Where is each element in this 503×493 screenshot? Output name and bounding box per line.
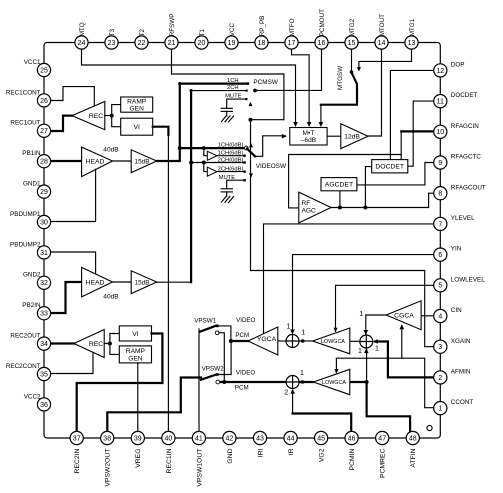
svg-text:T2: T2 — [139, 28, 146, 36]
svg-text:46: 46 — [348, 435, 356, 442]
svg-text:1CH: 1CH — [227, 78, 239, 84]
svg-text:1: 1 — [359, 311, 363, 318]
svg-text:AGC: AGC — [302, 208, 317, 215]
svg-text:1: 1 — [375, 345, 379, 352]
svg-text:40dB: 40dB — [103, 293, 119, 300]
svg-text:PBDUMP1: PBDUMP1 — [10, 211, 41, 218]
svg-text:VPSW1OUT: VPSW1OUT — [196, 449, 203, 487]
svg-text:13: 13 — [408, 40, 416, 47]
svg-text:M•T: M•T — [303, 130, 315, 137]
svg-text:REC2OUT: REC2OUT — [10, 333, 40, 340]
svg-text:MTG1: MTG1 — [409, 18, 416, 36]
svg-text:DOCDET: DOCDET — [451, 92, 478, 99]
svg-text:PCM: PCM — [235, 332, 249, 339]
svg-text:VG2: VG2 — [319, 448, 326, 462]
svg-text:19: 19 — [228, 40, 236, 47]
svg-text:42: 42 — [226, 435, 234, 442]
svg-text:REC1OUT: REC1OUT — [10, 120, 40, 127]
svg-text:3: 3 — [438, 344, 442, 351]
svg-text:44: 44 — [287, 435, 295, 442]
svg-text:2: 2 — [284, 390, 288, 397]
svg-text:T3: T3 — [109, 28, 116, 36]
svg-text:PCMREC: PCMREC — [380, 448, 387, 478]
svg-text:GND1: GND1 — [23, 181, 41, 188]
svg-text:14: 14 — [378, 40, 386, 47]
svg-text:REC1CONT: REC1CONT — [6, 89, 41, 96]
svg-text:1: 1 — [286, 324, 290, 331]
svg-text:MUTE: MUTE — [225, 94, 242, 100]
svg-text:MTQ: MTQ — [79, 22, 86, 36]
svg-text:34: 34 — [40, 341, 48, 348]
svg-text:–6dB: –6dB — [301, 137, 317, 144]
svg-text:47: 47 — [378, 435, 386, 442]
svg-text:T1: T1 — [199, 28, 206, 36]
svg-text:40dB: 40dB — [103, 146, 119, 153]
svg-text:11: 11 — [437, 99, 444, 106]
svg-text:1: 1 — [438, 406, 442, 413]
svg-text:38: 38 — [103, 435, 111, 442]
svg-text:27: 27 — [40, 128, 48, 135]
svg-text:PCMIN: PCMIN — [349, 448, 356, 470]
svg-text:48: 48 — [409, 435, 417, 442]
svg-text:30: 30 — [40, 219, 48, 226]
svg-text:33: 33 — [40, 311, 48, 318]
svg-text:41: 41 — [195, 435, 203, 442]
svg-text:35: 35 — [40, 371, 48, 378]
svg-text:RP_PB: RP_PB — [259, 16, 266, 37]
svg-text:20: 20 — [198, 40, 206, 47]
svg-text:2CH(6dB): 2CH(6dB) — [218, 166, 244, 172]
svg-text:LOWGCA: LOWGCA — [321, 339, 345, 345]
svg-text:8: 8 — [438, 191, 442, 198]
svg-text:GEN: GEN — [128, 355, 143, 362]
svg-text:1CH(6dB): 1CH(6dB) — [218, 150, 244, 156]
svg-text:23: 23 — [108, 40, 116, 47]
svg-text:32: 32 — [40, 280, 48, 287]
svg-text:VCC: VCC — [229, 23, 236, 37]
svg-text:VPSW1: VPSW1 — [194, 317, 217, 324]
svg-text:9: 9 — [438, 160, 442, 167]
svg-text:RAMP: RAMP — [127, 98, 147, 105]
svg-text:PCMOUT: PCMOUT — [319, 9, 326, 36]
svg-text:2: 2 — [438, 375, 442, 382]
svg-text:CGCA: CGCA — [394, 312, 414, 319]
svg-text:HEAD: HEAD — [86, 158, 105, 165]
svg-text:1: 1 — [300, 370, 304, 377]
svg-text:VCC1: VCC1 — [24, 59, 41, 66]
svg-text:PB2IN: PB2IN — [22, 302, 41, 309]
svg-text:VCC2: VCC2 — [24, 393, 41, 400]
svg-text:45: 45 — [317, 435, 325, 442]
svg-text:AFMIN: AFMIN — [451, 369, 471, 376]
svg-text:39: 39 — [134, 435, 142, 442]
svg-text:GND2: GND2 — [23, 272, 41, 279]
svg-text:RFSWP: RFSWP — [169, 14, 176, 37]
svg-text:1: 1 — [358, 348, 362, 355]
svg-text:17: 17 — [288, 40, 296, 47]
svg-text:VIDEOSW: VIDEOSW — [256, 163, 287, 170]
svg-text:LOWLEVEL: LOWLEVEL — [451, 276, 485, 283]
svg-text:XGAIN: XGAIN — [451, 338, 471, 345]
svg-text:DOP: DOP — [451, 62, 465, 69]
svg-text:1CH(0dB): 1CH(0dB) — [218, 142, 244, 148]
svg-text:15dB: 15dB — [135, 158, 150, 165]
svg-text:GND: GND — [227, 448, 234, 463]
svg-text:21: 21 — [168, 40, 176, 47]
svg-text:DOCDET: DOCDET — [375, 164, 404, 171]
svg-text:PB1IN: PB1IN — [22, 150, 41, 157]
svg-text:RF: RF — [302, 200, 311, 207]
svg-text:15dB: 15dB — [135, 279, 150, 286]
svg-text:YLEVEL: YLEVEL — [451, 215, 475, 222]
svg-text:12dB: 12dB — [344, 134, 360, 141]
svg-text:REC1IN: REC1IN — [166, 448, 173, 473]
svg-text:29: 29 — [40, 189, 48, 196]
svg-text:15: 15 — [348, 40, 356, 47]
svg-text:IRI: IRI — [257, 448, 264, 457]
svg-text:PCMSW: PCMSW — [253, 79, 278, 86]
svg-text:VIDEO: VIDEO — [236, 369, 255, 376]
svg-text:VPSW2OUT: VPSW2OUT — [105, 449, 112, 487]
svg-text:RFAGCIN: RFAGCIN — [451, 123, 479, 130]
svg-text:2CH: 2CH — [227, 85, 239, 91]
svg-text:RAMP: RAMP — [126, 348, 146, 355]
svg-text:28: 28 — [40, 159, 48, 166]
svg-text:PBDUMP2: PBDUMP2 — [10, 241, 41, 248]
svg-text:RFAGCTC: RFAGCTC — [451, 154, 482, 161]
svg-text:18: 18 — [258, 40, 266, 47]
svg-text:VI: VI — [132, 331, 139, 338]
svg-text:PCM: PCM — [235, 384, 249, 391]
svg-text:RFAGCOUT: RFAGCOUT — [451, 184, 486, 191]
svg-text:REC2CONT: REC2CONT — [6, 363, 41, 370]
svg-text:ATFIN: ATFIN — [410, 448, 417, 467]
svg-text:VI: VI — [133, 124, 140, 131]
svg-text:2CH(0dB): 2CH(0dB) — [218, 157, 244, 163]
svg-text:MTFO: MTFO — [289, 18, 296, 36]
svg-text:16: 16 — [318, 40, 326, 47]
svg-text:CCONT: CCONT — [451, 399, 474, 406]
svg-text:10: 10 — [436, 129, 444, 136]
svg-text:REC: REC — [89, 113, 103, 120]
svg-text:7: 7 — [438, 221, 442, 228]
svg-text:40: 40 — [165, 435, 173, 442]
svg-text:HEAD: HEAD — [86, 279, 105, 286]
svg-text:MTG2: MTG2 — [349, 18, 356, 36]
svg-text:4: 4 — [438, 313, 442, 320]
svg-text:REC2IN: REC2IN — [74, 448, 81, 473]
svg-text:MUTE: MUTE — [219, 175, 236, 181]
svg-text:LOWGCA: LOWGCA — [322, 380, 346, 386]
svg-text:MTGSW: MTGSW — [337, 66, 344, 90]
svg-text:YGCA: YGCA — [257, 336, 277, 343]
svg-text:22: 22 — [138, 40, 146, 47]
svg-text:VIDEO: VIDEO — [236, 317, 255, 324]
svg-text:CIN: CIN — [451, 307, 462, 314]
svg-text:MTOUT: MTOUT — [379, 14, 386, 36]
svg-text:36: 36 — [40, 402, 48, 409]
svg-text:5: 5 — [438, 283, 442, 290]
svg-text:25: 25 — [40, 67, 48, 74]
svg-text:VPSW2: VPSW2 — [202, 365, 225, 372]
svg-text:1: 1 — [301, 329, 305, 336]
svg-text:12: 12 — [436, 68, 444, 75]
svg-text:26: 26 — [40, 98, 48, 105]
svg-text:AGCDET: AGCDET — [325, 182, 353, 189]
svg-text:REC: REC — [89, 341, 103, 348]
svg-text:6: 6 — [438, 252, 442, 259]
svg-text:YIN: YIN — [451, 246, 462, 253]
svg-text:GEN: GEN — [130, 105, 145, 112]
svg-text:31: 31 — [40, 250, 48, 257]
svg-text:IR: IR — [288, 448, 295, 455]
svg-text:VREG: VREG — [135, 449, 142, 468]
svg-text:37: 37 — [73, 435, 81, 442]
svg-text:24: 24 — [78, 40, 86, 47]
svg-text:43: 43 — [256, 435, 264, 442]
